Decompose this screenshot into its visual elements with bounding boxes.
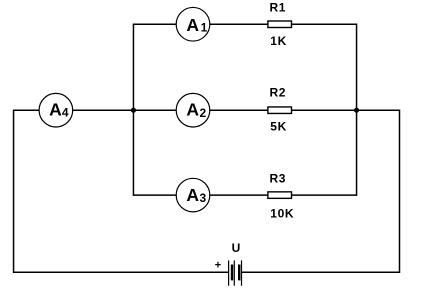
wire middle branch <box>14 109 400 111</box>
resistor R2 <box>268 107 292 114</box>
svg-text:5K: 5K <box>270 120 287 134</box>
battery U <box>229 260 242 285</box>
svg-text:R1: R1 <box>270 0 287 14</box>
wire top branch <box>133 23 356 25</box>
ammeter A2 <box>176 93 210 127</box>
svg-text:1: 1 <box>201 21 208 35</box>
wire bottom left <box>14 271 229 273</box>
svg-text:A: A <box>186 15 199 35</box>
svg-text:2: 2 <box>200 106 207 120</box>
svg-text:U: U <box>232 241 241 255</box>
wire bottom branch <box>133 194 356 196</box>
ammeter A1 <box>176 7 210 41</box>
svg-text:A: A <box>186 100 199 120</box>
svg-text:10K: 10K <box>270 206 294 220</box>
svg-text:A: A <box>186 185 199 205</box>
resistor R3 <box>268 192 292 199</box>
battery plate long 2 <box>233 260 235 285</box>
wire left outer <box>13 109 15 273</box>
ammeter A4 <box>39 93 73 127</box>
battery plate long 1 <box>228 260 230 285</box>
svg-text:+: + <box>215 259 221 271</box>
battery plate long 3 <box>241 260 243 285</box>
svg-text:3: 3 <box>200 191 207 205</box>
resistor R1 <box>268 21 292 28</box>
wire bottom right <box>242 271 400 273</box>
node left junction <box>131 108 136 113</box>
svg-text:A: A <box>49 100 62 120</box>
wire right inner bus <box>356 24 358 196</box>
svg-text:R2: R2 <box>270 86 287 100</box>
svg-text:R3: R3 <box>270 172 287 186</box>
wire right outer <box>399 109 401 273</box>
ammeter A3 <box>176 178 210 212</box>
svg-text:4: 4 <box>62 106 69 120</box>
battery plate short 2 <box>238 265 240 281</box>
wire left inner bus <box>132 24 134 196</box>
battery plate short 1 <box>231 265 233 281</box>
svg-text:1K: 1K <box>270 34 287 48</box>
node right junction <box>354 108 359 113</box>
